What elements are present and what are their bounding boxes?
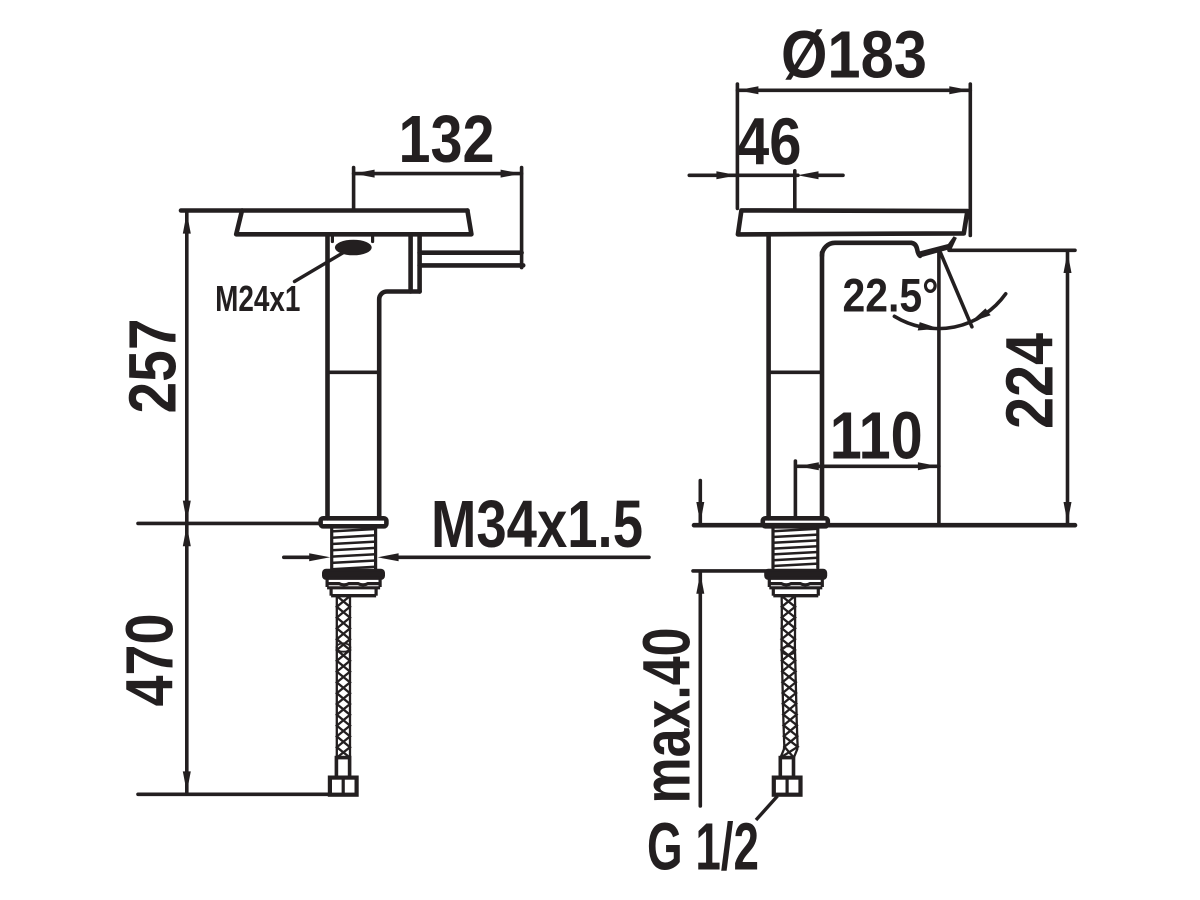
svg-text:470: 470 <box>112 614 187 707</box>
svg-text:22.5°: 22.5° <box>843 269 939 322</box>
svg-text:110: 110 <box>830 398 923 473</box>
svg-text:46: 46 <box>737 105 802 180</box>
svg-text:max.40: max.40 <box>629 628 704 804</box>
svg-text:M34x1.5: M34x1.5 <box>431 487 643 562</box>
svg-text:132: 132 <box>399 102 495 177</box>
svg-text:M24x1: M24x1 <box>215 278 300 319</box>
svg-text:G 1/2: G 1/2 <box>647 810 759 885</box>
svg-text:257: 257 <box>115 319 190 414</box>
svg-text:224: 224 <box>993 333 1068 429</box>
svg-text:Ø183: Ø183 <box>781 17 927 92</box>
